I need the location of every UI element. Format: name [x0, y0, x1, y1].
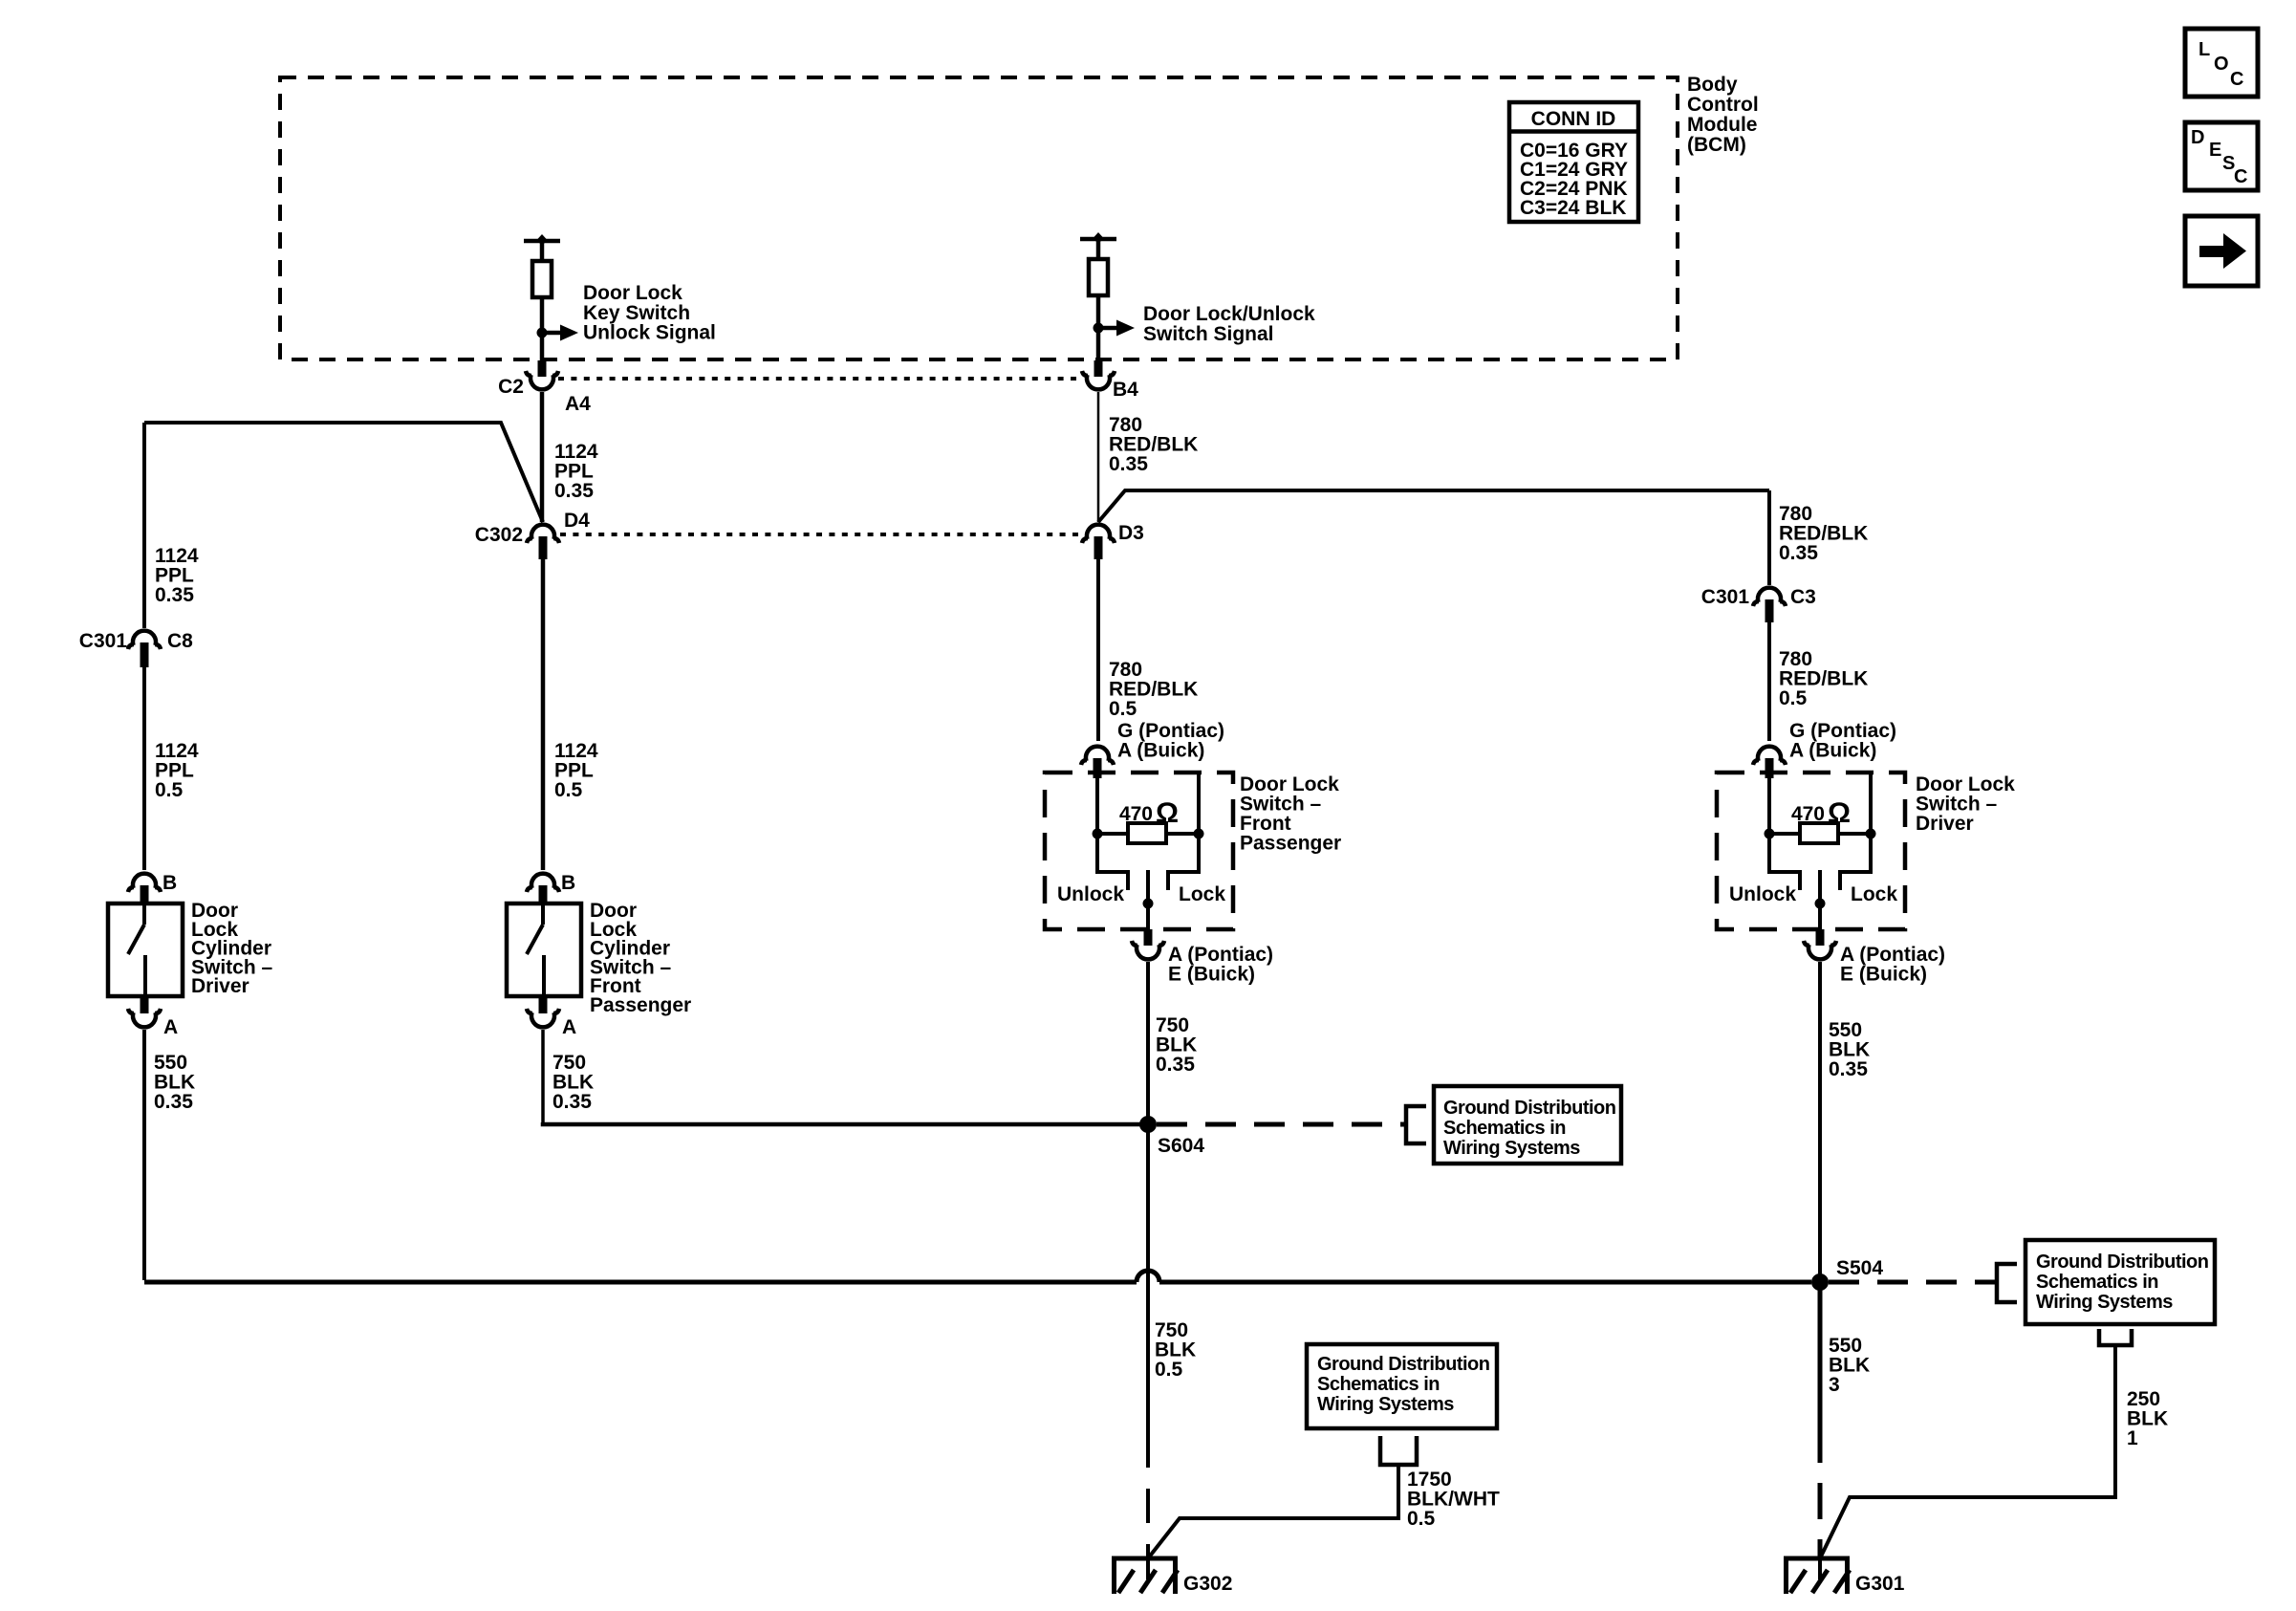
switch pole junction dot [front passenger door lock switch] — [1143, 899, 1154, 909]
svg-text:0.5: 0.5 — [155, 779, 184, 801]
wire 780 RED/BLK 0.5 (C3 to driver switch) — [1767, 622, 1771, 741]
wire 550 BLK 0.35 (driver switch pole to S504) — [1818, 962, 1822, 1282]
svg-text:Lock: Lock — [1179, 883, 1225, 905]
svg-text:0.5: 0.5 — [554, 779, 583, 801]
connector B4 stub — [1094, 360, 1103, 377]
switch pole wire [driver door lock switch] — [1818, 870, 1822, 929]
switch input branch wire [front passenger door lock switch] — [1095, 778, 1099, 829]
LOC legend box — [2185, 29, 2258, 97]
wire 550 BLK 3 (S504 to G301) — [1818, 1282, 1823, 1426]
wire resistor to splice (col 3) — [1096, 295, 1101, 361]
connector B4 terminal arc — [1087, 375, 1110, 389]
wire 1124 PPL 0.5 (left column) — [142, 667, 146, 870]
svg-text:(BCM): (BCM) — [1687, 134, 1746, 156]
svg-text:A: A — [562, 1016, 576, 1038]
pin A/E stub [driver door lock switch] — [1816, 929, 1825, 946]
Door Lock Cylinder Switch - Driver box — [108, 903, 183, 996]
wire branch from driver cylinder switch row (to C302) — [144, 423, 543, 522]
svg-text:Ω: Ω — [1828, 797, 1851, 829]
wire 780 RED/BLK 0.35 (B4 to D3) — [1097, 392, 1100, 522]
Door Lock Cylinder Switch - Front Passenger box — [507, 903, 581, 996]
lock-side branch to box top [driver door lock switch] — [1869, 773, 1873, 829]
junction dot right (resistor node) [driver door lock switch] — [1866, 829, 1876, 839]
svg-text:A: A — [163, 1016, 178, 1038]
svg-text:0.35: 0.35 — [1109, 453, 1148, 475]
svg-text:C3: C3 — [1790, 586, 1816, 608]
switch blade (driver cylinder switch) — [128, 903, 145, 996]
svg-text:Schematics in: Schematics in — [2036, 1272, 2158, 1293]
connector C2 terminal arc — [531, 375, 553, 389]
dashed switch body box [front passenger door lock switch] — [1045, 773, 1233, 929]
svg-text:C3=24 BLK: C3=24 BLK — [1520, 197, 1626, 219]
ground symbol G301 — [1784, 1557, 1850, 1561]
wire 550 BLK 0.35 (driver cyl switch to S504 run) — [142, 1030, 146, 1280]
wire branch D3 to driver door lock switch (horizontal run) — [1098, 490, 1769, 522]
switch pole junction dot [driver door lock switch] — [1815, 899, 1826, 909]
Ground Distribution reference box (G302 feed) — [1307, 1344, 1497, 1428]
svg-text:G301: G301 — [1855, 1573, 1905, 1595]
svg-text:Wiring Systems: Wiring Systems — [1317, 1394, 1454, 1415]
wire 750 BLK 0.35 (switch pole to S604) — [1146, 962, 1150, 1124]
wire 750 BLK 0.5 (S604 to G302) — [1146, 1124, 1150, 1433]
svg-text:Control: Control — [1687, 94, 1759, 116]
svg-text:Driver: Driver — [191, 975, 249, 997]
switch pole wire [front passenger door lock switch] — [1146, 870, 1150, 929]
svg-text:C8: C8 — [167, 630, 193, 652]
svg-text:S504: S504 — [1836, 1257, 1883, 1279]
svg-text:Unlock Signal: Unlock Signal — [583, 322, 716, 344]
bracket to ground distribution box (S604) — [1406, 1106, 1426, 1143]
svg-text:0.5: 0.5 — [1407, 1508, 1436, 1530]
signal arrow Door Lock/Unlock Switch Signal — [1102, 320, 1135, 337]
svg-text:3: 3 — [1829, 1374, 1840, 1396]
svg-text:C: C — [2230, 69, 2243, 90]
pin A stub (passenger cylinder switch) — [539, 996, 548, 1013]
svg-text:B: B — [561, 872, 575, 894]
Ground Distribution reference box (S504) — [2025, 1240, 2215, 1324]
svg-text:0.5: 0.5 — [1155, 1359, 1183, 1381]
svg-text:CONN ID: CONN ID — [1531, 108, 1616, 130]
BCM internal terminal bar (lock/unlock circuit) — [1080, 232, 1116, 244]
switch input branch wire [driver door lock switch] — [1767, 778, 1771, 829]
svg-text:B: B — [162, 872, 177, 894]
forward-arrow legend box — [2185, 216, 2258, 286]
pin G/A stub [driver door lock switch] — [1765, 758, 1774, 778]
svg-text:E (Buick): E (Buick) — [1168, 964, 1255, 986]
junction dot left (resistor node) [front passenger door lock switch] — [1093, 829, 1103, 839]
svg-text:0.35: 0.35 — [155, 584, 194, 606]
splice dot Door Lock Key Switch Unlock Signal — [537, 328, 548, 338]
wire 1124 PPL 0.5 (C302 to switch B) — [541, 559, 546, 870]
BCM internal terminal bar (key switch circuit) — [524, 234, 560, 246]
svg-text:D: D — [2191, 127, 2204, 148]
wire 780 RED/BLK 0.35 (branch to C301 C3) — [1767, 490, 1771, 585]
splice S604 dot — [1139, 1116, 1157, 1133]
resistor right lead [driver door lock switch] — [1838, 832, 1871, 836]
pin A/E stub [front passenger door lock switch] — [1144, 929, 1153, 946]
connector D3 stub — [1094, 536, 1103, 559]
connector C302 terminal arc — [531, 525, 554, 539]
svg-text:Wiring Systems: Wiring Systems — [2036, 1292, 2173, 1313]
svg-text:Driver: Driver — [1916, 813, 1974, 835]
pin B arc (driver cylinder switch) — [133, 874, 156, 888]
svg-text:Ground Distribution: Ground Distribution — [2036, 1252, 2208, 1273]
wire 1124 PPL 0.35 (C2 to C302) — [540, 392, 545, 522]
connector C302 stub — [539, 536, 548, 559]
svg-text:Door Lock/Unlock: Door Lock/Unlock — [1143, 303, 1315, 325]
pin A/E arc [front passenger door lock switch] — [1137, 945, 1159, 959]
wire 1124 PPL 0.35 (left column) — [142, 423, 146, 628]
svg-text:Wiring Systems: Wiring Systems — [1443, 1138, 1580, 1159]
svg-text:Key Switch: Key Switch — [583, 302, 690, 324]
pin G/A arc [front passenger door lock switch] — [1086, 747, 1109, 761]
resistor (BCM key switch pull-up) — [532, 261, 552, 297]
wire 250 BLK 1 to G301 — [1820, 1345, 2115, 1558]
connector D3 terminal arc — [1087, 525, 1110, 539]
dotted connector line C2-B4 — [558, 377, 1083, 381]
dashed switch body box [driver door lock switch] — [1717, 773, 1905, 929]
svg-text:Ground Distribution: Ground Distribution — [1317, 1354, 1489, 1375]
resistor 470 ohm leads [front passenger door lock switch] — [1097, 832, 1128, 836]
svg-text:Ground Distribution: Ground Distribution — [1443, 1098, 1615, 1119]
wire 1750 BLK/WHT 0.5 to G302 — [1148, 1465, 1398, 1558]
svg-text:Schematics in: Schematics in — [1443, 1118, 1566, 1139]
svg-text:A (Buick): A (Buick) — [1117, 740, 1204, 762]
resistor 470 ohm leads [driver door lock switch] — [1769, 832, 1800, 836]
svg-text:Passenger: Passenger — [1240, 833, 1341, 855]
svg-text:Door Lock: Door Lock — [583, 282, 682, 304]
bracket below ground distribution box (S504) — [2099, 1329, 2132, 1345]
main ground run 550 BLK (left column to S504) — [144, 1271, 1811, 1282]
lock contact [front passenger door lock switch] — [1168, 838, 1199, 890]
wire resistor to splice — [540, 297, 545, 363]
connector C2 stub — [538, 360, 547, 377]
svg-text:Unlock: Unlock — [1729, 883, 1796, 905]
resistor 470 ohm body [driver door lock switch] — [1800, 823, 1838, 843]
svg-text:0.5: 0.5 — [1779, 687, 1808, 709]
svg-text:A4: A4 — [565, 393, 591, 415]
svg-text:D4: D4 — [564, 510, 590, 532]
DESC legend box — [2185, 122, 2258, 190]
pin B stub (driver cylinder switch) — [141, 885, 149, 904]
svg-text:E (Buick): E (Buick) — [1840, 964, 1927, 986]
connector C301 pin C3 arc — [1758, 588, 1781, 602]
pin G/A stub [front passenger door lock switch] — [1094, 758, 1102, 778]
wire 750 BLK 0.35 (passenger cyl switch to S604) — [543, 1030, 1140, 1124]
svg-text:D3: D3 — [1118, 522, 1144, 544]
resistor (BCM lock/unlock pull-up) — [1089, 259, 1108, 295]
unlock contact [driver door lock switch] — [1769, 838, 1800, 890]
bracket below ground distribution box (G302 feed) — [1380, 1436, 1417, 1465]
svg-text:Unlock: Unlock — [1057, 883, 1124, 905]
CONN ID table — [1509, 102, 1638, 222]
splice dot Door Lock/Unlock Switch Signal — [1094, 323, 1104, 334]
svg-text:Module: Module — [1687, 114, 1758, 136]
wire BCM terminal to resistor (col 3) — [1096, 239, 1101, 259]
resistor right lead [front passenger door lock switch] — [1166, 832, 1199, 836]
resistor 470 ohm body [front passenger door lock switch] — [1128, 823, 1166, 843]
switch blade (passenger cylinder switch) — [527, 903, 544, 996]
svg-text:0.35: 0.35 — [1779, 542, 1818, 564]
unlock contact [front passenger door lock switch] — [1097, 838, 1128, 890]
pin A arc (passenger cylinder switch) — [531, 1012, 554, 1027]
connector C301 pin C8 stub — [141, 642, 149, 667]
svg-text:0.35: 0.35 — [552, 1091, 592, 1113]
svg-text:0.35: 0.35 — [154, 1091, 193, 1113]
svg-text:0.5: 0.5 — [1109, 698, 1137, 720]
svg-text:0.35: 0.35 — [554, 480, 594, 502]
lock contact [driver door lock switch] — [1840, 838, 1871, 890]
splice S504 dot — [1811, 1274, 1829, 1291]
svg-text:470: 470 — [1119, 803, 1153, 825]
junction dot left (resistor node) [driver door lock switch] — [1765, 829, 1775, 839]
signal arrow Door Lock Key Switch Unlock Signal — [546, 325, 578, 341]
svg-text:E: E — [2209, 140, 2221, 161]
wire 780 RED/BLK 0.5 (D3 to switch) — [1096, 559, 1100, 741]
svg-text:Schematics in: Schematics in — [1317, 1374, 1440, 1395]
pin B arc (passenger cylinder switch) — [531, 874, 554, 888]
svg-text:B4: B4 — [1113, 379, 1138, 401]
dashed reference wire S604 to ground distribution box — [1157, 1122, 1406, 1127]
svg-text:Switch Signal: Switch Signal — [1143, 323, 1274, 345]
dashed reference wire S504 to ground distribution box — [1829, 1280, 1997, 1285]
svg-text:Passenger: Passenger — [590, 994, 691, 1016]
lock-side branch to box top [front passenger door lock switch] — [1197, 773, 1201, 829]
svg-text:C301: C301 — [79, 630, 128, 652]
svg-text:C2: C2 — [498, 376, 524, 398]
svg-text:Lock: Lock — [1851, 883, 1897, 905]
svg-text:Ω: Ω — [1156, 797, 1179, 829]
svg-text:C301: C301 — [1701, 586, 1750, 608]
pin B stub (passenger cylinder switch) — [539, 885, 548, 904]
junction dot right (resistor node) [front passenger door lock switch] — [1194, 829, 1204, 839]
bracket to ground distribution box (S504) — [1997, 1264, 2017, 1302]
Body Control Module (BCM) dashed outline — [280, 77, 1678, 359]
svg-text:470: 470 — [1791, 803, 1825, 825]
dashed wire to G301 — [1818, 1426, 1823, 1557]
Ground Distribution reference box (S604) — [1434, 1086, 1621, 1164]
dashed wire to G302 — [1146, 1433, 1150, 1557]
svg-text:S604: S604 — [1158, 1135, 1204, 1157]
connector C301 pin C8 arc — [133, 631, 156, 645]
connector C301 pin C3 stub — [1765, 599, 1774, 622]
svg-text:L: L — [2199, 39, 2210, 60]
svg-text:A (Buick): A (Buick) — [1789, 740, 1876, 762]
svg-text:C302: C302 — [475, 524, 523, 546]
svg-text:C: C — [2234, 166, 2247, 187]
svg-text:Body: Body — [1687, 74, 1738, 96]
pin A stub (driver cylinder switch) — [141, 996, 149, 1013]
pin G/A arc [driver door lock switch] — [1758, 747, 1781, 761]
svg-text:O: O — [2214, 54, 2229, 75]
svg-text:1: 1 — [2127, 1427, 2138, 1449]
dotted connector line C302-D3 — [560, 533, 1083, 536]
pin A/E arc [driver door lock switch] — [1809, 945, 1831, 959]
svg-text:0.35: 0.35 — [1156, 1054, 1195, 1076]
svg-text:0.35: 0.35 — [1829, 1058, 1868, 1080]
wire BCM terminal to resistor — [540, 241, 545, 261]
ground symbol G302 — [1112, 1557, 1178, 1561]
pin A arc (driver cylinder switch) — [133, 1012, 156, 1027]
svg-text:G302: G302 — [1183, 1573, 1232, 1595]
